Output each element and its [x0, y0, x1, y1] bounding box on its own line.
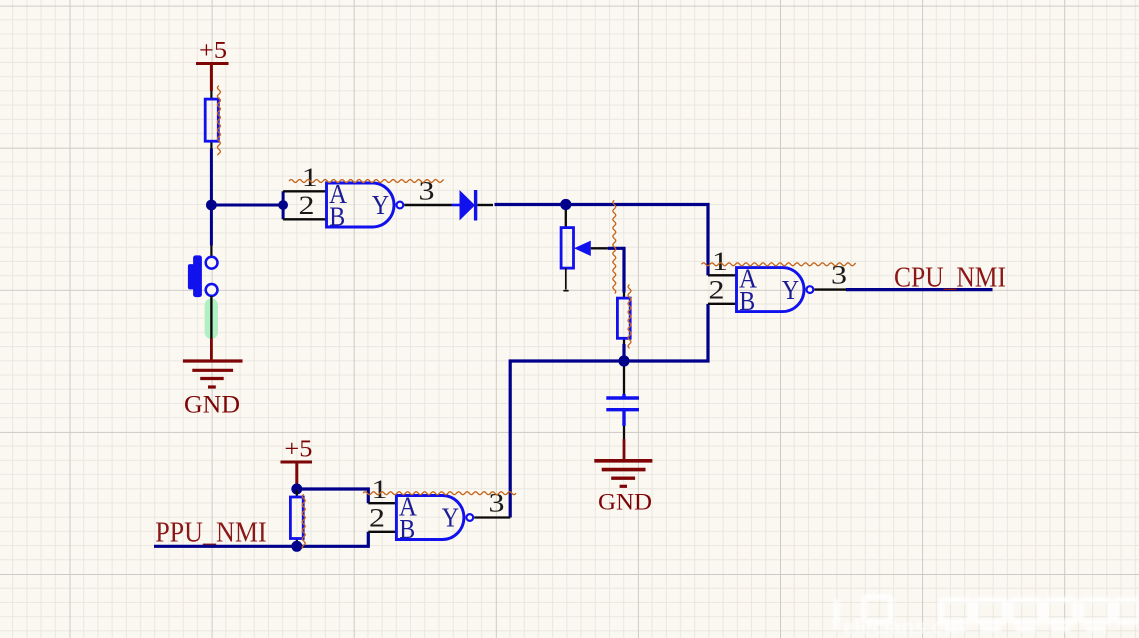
- green highlight on wire below S1: [205, 299, 218, 340]
- ERC marker squiggle beside RP1: [613, 200, 616, 293]
- nand gate U1A body: [327, 183, 394, 227]
- U1B pin 3 stub: [814, 288, 846, 290]
- wire R1 to node A: [210, 149, 213, 206]
- U1B pin 2 stub: [708, 303, 737, 305]
- svg-text:Y: Y: [782, 275, 799, 305]
- svg-text:PPU_NMI: PPU_NMI: [155, 517, 267, 549]
- U1A pin 2 stub: [283, 218, 326, 220]
- wire diode to node B: [495, 203, 566, 206]
- resistor R2: [617, 293, 630, 345]
- junction node E (R3/PPU_NMI wire): [291, 541, 302, 552]
- svg-text:1: 1: [372, 474, 388, 504]
- ERC marker squiggle beside R2: [628, 285, 631, 349]
- wire node C left and down to U2A output: [510, 361, 624, 518]
- svg-text:B: B: [399, 514, 415, 544]
- wire node A to U1A inputs: [211, 191, 283, 219]
- switch S1 bottom pin wire: [210, 296, 212, 338]
- junction node D (+5/R3/U2A pin1): [291, 484, 302, 495]
- svg-text:B: B: [329, 201, 345, 231]
- svg-text:Y: Y: [442, 503, 459, 533]
- ERC marker squiggle beside R1: [217, 86, 220, 156]
- U1A pin 1 stub: [283, 190, 326, 192]
- svg-text:GND: GND: [598, 490, 652, 515]
- ERC marker squiggle beside R3: [302, 494, 305, 548]
- junction at U1A inputs: [278, 200, 288, 210]
- U1B output inversion bubble: [807, 286, 814, 293]
- resistor R1: [205, 91, 218, 149]
- wire node D to U2A pin 1: [297, 489, 369, 503]
- U1A pin 3 stub: [404, 204, 451, 206]
- wire U1B output to CPU_NMI: [846, 288, 993, 291]
- wire pot wiper to R2: [608, 248, 624, 292]
- resistor R3: [290, 489, 303, 546]
- ground symbol GND (right): [594, 439, 652, 486]
- svg-text:+5: +5: [284, 436, 312, 463]
- power +5 symbol VCC (bottom): [281, 436, 313, 487]
- wire node B right and down to U1B pin 1: [566, 205, 708, 276]
- ERC marker squiggle above U1B: [701, 263, 855, 266]
- ERC marker squiggle above U2A: [363, 492, 516, 495]
- nand gate U2A body: [396, 496, 464, 540]
- U1A output inversion bubble: [397, 202, 404, 209]
- capacitor C1: [606, 367, 639, 440]
- U1B pin 1 stub: [708, 274, 737, 276]
- svg-text:B: B: [739, 286, 755, 316]
- svg-text:2: 2: [299, 190, 315, 220]
- svg-text:2: 2: [369, 503, 385, 533]
- wire node A down to switch: [210, 205, 213, 246]
- U2A pin 1 stub: [368, 502, 396, 504]
- junction node B: [560, 199, 571, 210]
- wire PPU_NMI to U2A pin 2: [154, 532, 368, 547]
- svg-text:1: 1: [302, 162, 318, 192]
- ground symbol GND (left): [183, 338, 243, 387]
- svg-text:Y: Y: [372, 190, 389, 220]
- switch S1 top pin: [210, 246, 212, 257]
- pushbutton switch S1: [188, 255, 218, 297]
- watermark (white semi-transparent): [834, 597, 1139, 638]
- ERC marker squiggle above U1A: [289, 180, 444, 183]
- svg-text:2: 2: [709, 275, 725, 305]
- diode D1: [452, 190, 494, 221]
- nand gate U1B body: [737, 268, 805, 312]
- junction node A: [206, 200, 217, 211]
- U2A pin 2 stub: [368, 531, 396, 533]
- svg-text:+5: +5: [199, 37, 227, 64]
- junction node C: [618, 355, 629, 366]
- U2A output inversion bubble: [466, 514, 473, 521]
- power +5 symbol VCC (top): [196, 37, 229, 91]
- potentiometer RP1: [561, 210, 608, 291]
- svg-text:GND: GND: [184, 392, 240, 419]
- wire node C right and up to U1B pin 2: [624, 304, 708, 361]
- wire R2 to node C: [622, 344, 625, 361]
- U2A pin 3 stub: [474, 516, 510, 518]
- svg-text:1: 1: [712, 246, 728, 276]
- svg-text:CPU_NMI: CPU_NMI: [894, 262, 1006, 294]
